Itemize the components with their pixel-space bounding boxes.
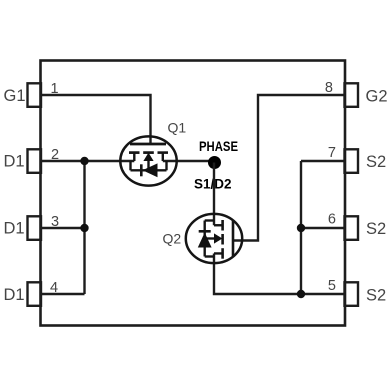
pin 3 box	[28, 216, 42, 240]
svg-text:PHASE: PHASE	[199, 138, 238, 154]
svg-text:Q2: Q2	[163, 231, 182, 247]
Q2 body-diode cathode bar	[199, 230, 211, 233]
svg-text:8: 8	[325, 80, 333, 96]
pin 1 box	[28, 83, 42, 107]
junction dot D1 bus row2	[80, 157, 88, 165]
Q1 drain stub	[133, 153, 135, 161]
Q1 body-diode triangle	[143, 163, 158, 177]
wire pin6 to S2 bus	[301, 227, 345, 229]
svg-text:5: 5	[328, 278, 336, 294]
wire pin1 to Q1 gate	[41, 95, 151, 144]
svg-text:G1: G1	[4, 87, 26, 105]
Q1 channel segment drain	[129, 151, 140, 154]
wire pin2 to Q1 drain lead	[41, 160, 135, 162]
wire pin7 to S2 bus	[301, 160, 345, 162]
svg-text:D1: D1	[4, 286, 25, 304]
transistor Q1	[120, 136, 176, 185]
node PHASE junction dot	[208, 156, 221, 169]
svg-text:D1: D1	[4, 153, 25, 171]
svg-text:6: 6	[328, 212, 336, 228]
svg-text:D1: D1	[4, 220, 25, 238]
pin 6 box	[345, 216, 359, 240]
Q1 body arrow	[143, 153, 153, 161]
wire pin8 to Q2 gate	[234, 95, 345, 241]
pin 5 box	[345, 282, 359, 306]
pin 7 box	[345, 149, 359, 173]
Q1 body-diode rail	[131, 169, 167, 171]
Q1 channel segment source	[158, 151, 169, 154]
Q1 body-diode left riser	[129, 161, 131, 170]
wire Q1 source to PHASE node	[163, 160, 215, 162]
Q1 gate bar	[130, 143, 166, 146]
svg-text:7: 7	[328, 145, 336, 161]
transistor Q2	[186, 214, 242, 263]
svg-text:S2: S2	[366, 153, 386, 171]
wire PHASE to Q2 drain lead	[213, 163, 215, 226]
wire pin4 to D1 bus	[41, 293, 85, 295]
Q2 body circle	[186, 214, 242, 263]
svg-text:S2: S2	[366, 287, 386, 305]
Q1 body stub	[147, 156, 149, 170]
wire Q2 source to pin5 row	[214, 253, 301, 294]
Q2 body-diode top riser	[205, 219, 214, 221]
Q1 body circle	[120, 136, 176, 185]
Q2 source stub	[214, 252, 223, 254]
Q1 body-diode right riser	[165, 161, 167, 170]
Q2 channel segment body	[221, 234, 224, 245]
Q2 body-diode rail	[203, 221, 205, 257]
Q1 channel segment body	[143, 151, 154, 154]
Q1 body-diode cathode bar	[140, 164, 143, 176]
junction dot S2 bus row3	[297, 224, 305, 232]
Q1 source stub	[162, 153, 164, 161]
Q2 body-diode triangle	[198, 233, 212, 248]
wire pin5 to S2 bus	[301, 293, 345, 295]
Q2 drain stub	[214, 224, 223, 226]
Q2 body arrow	[214, 233, 222, 243]
Q2 body-diode bottom riser	[205, 255, 214, 257]
Q2 channel segment source	[221, 248, 224, 259]
pin 4 box	[28, 282, 42, 306]
wire D1 bus vertical	[83, 161, 85, 294]
pin 2 box	[28, 149, 42, 173]
Q2 body stub	[205, 237, 219, 239]
svg-text:S2: S2	[366, 220, 386, 238]
wire S2 bus vertical	[300, 161, 302, 294]
wire pin3 to D1 bus	[41, 227, 85, 229]
junction dot S2 bus row4	[297, 290, 305, 298]
package outline	[41, 61, 346, 326]
junction dot D1 bus row3	[80, 224, 88, 232]
svg-text:G2: G2	[366, 88, 388, 106]
svg-text:Q1: Q1	[168, 120, 187, 136]
pin 8 box	[345, 83, 359, 107]
Q2 channel segment drain	[221, 220, 224, 231]
Q2 gate bar	[232, 221, 235, 257]
